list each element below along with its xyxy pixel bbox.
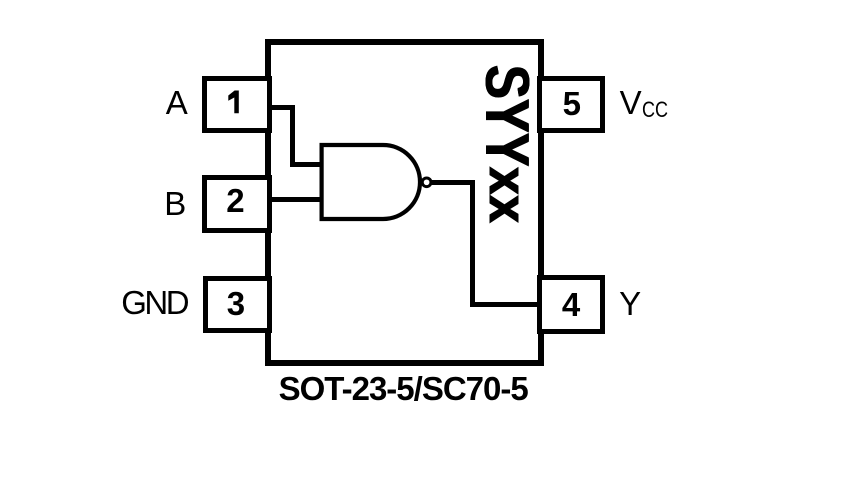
pin 1 number (drawn: Arial-style bold 1 without foot serif)	[225, 88, 243, 116]
pin 2 number	[201, 184, 271, 217]
pin 3 box	[203, 276, 272, 333]
device marking SYYxx (rotated)	[475, 65, 537, 223]
wire output down (vertical)	[470, 180, 475, 307]
pin 4 number	[537, 288, 605, 321]
pin 2 box	[202, 175, 272, 233]
pin 3 number	[201, 287, 271, 320]
pin 5 number	[538, 87, 606, 120]
pin 1 box	[202, 76, 272, 133]
wire pin2 to gate input B	[272, 197, 324, 202]
wire to gate input A (horizontal)	[290, 162, 324, 167]
label B	[164, 187, 186, 220]
label Vcc	[620, 86, 674, 119]
label GND	[121, 286, 187, 319]
wire pin1 to jog (horizontal)	[272, 105, 295, 110]
label Y	[619, 287, 641, 320]
inverter bubble	[422, 178, 431, 187]
wire pin1 jog (vertical)	[290, 105, 295, 167]
label A	[166, 86, 188, 119]
wire to pin4 (horizontal)	[470, 302, 537, 307]
NAND gate U1	[300, 130, 450, 240]
pin 4 box	[537, 275, 605, 334]
IC package body SOT-23-5	[265, 39, 544, 366]
pin 5 box	[537, 76, 605, 133]
package caption	[279, 372, 528, 405]
wire gate output (horizontal)	[431, 180, 475, 185]
